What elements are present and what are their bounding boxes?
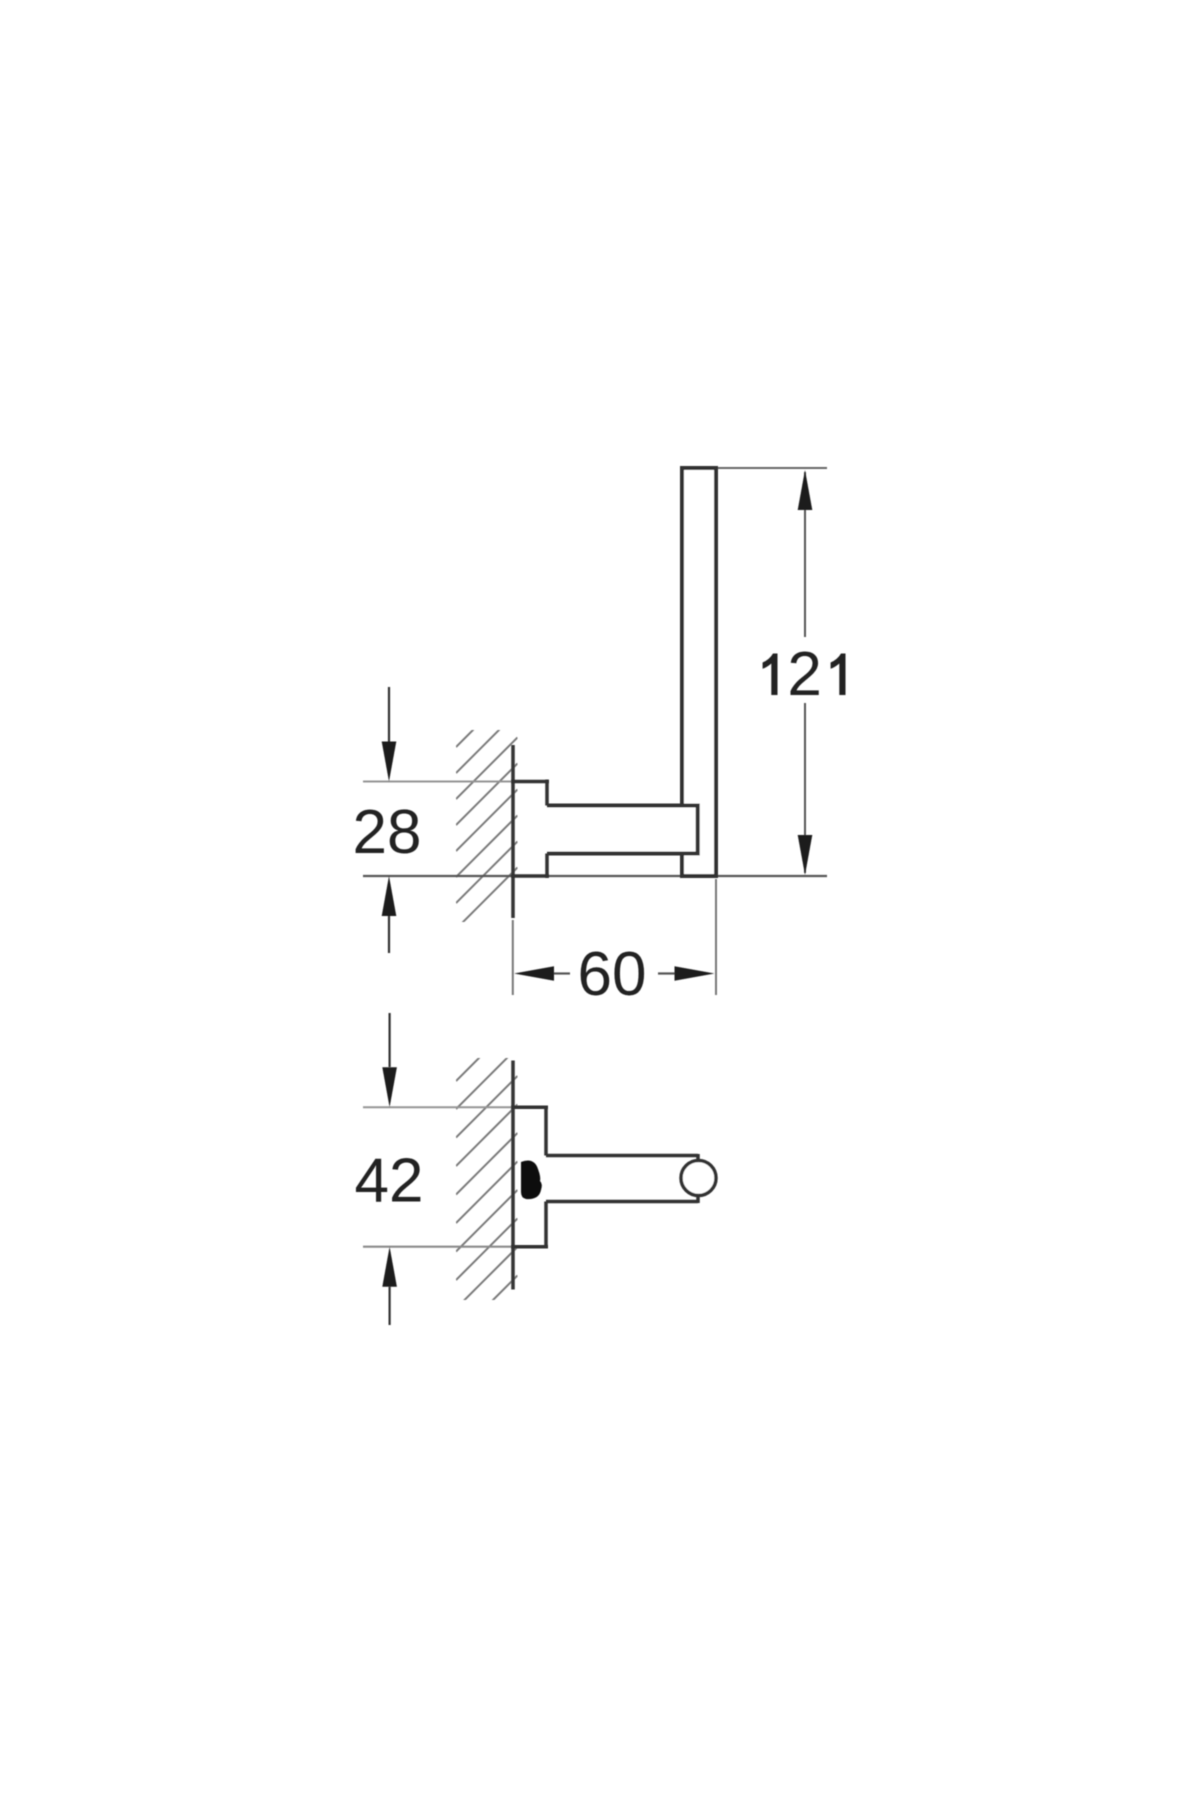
- svg-text:60: 60: [578, 940, 647, 1009]
- svg-text:2: 2: [787, 640, 821, 709]
- svg-text:42: 42: [355, 1147, 424, 1216]
- svg-text:28: 28: [353, 798, 422, 867]
